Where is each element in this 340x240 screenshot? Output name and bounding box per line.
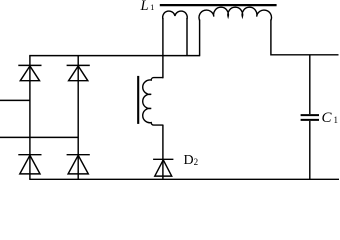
wire bridge left leg: [29, 56, 31, 180]
wire winding B left lead down to rail end: [199, 20, 201, 56]
transformer core bar vertical: [137, 76, 139, 124]
inductor L1 core bar: [160, 4, 277, 6]
wire winding A left lead down to transformer winding: [162, 18, 164, 78]
wire AC input line 1: [0, 99, 30, 101]
inductor L1 winding A (2 humps): [163, 11, 188, 19]
label C1: [322, 110, 339, 127]
diode bridge lower-right: [67, 155, 90, 174]
diode bridge upper-left: [18, 65, 41, 80]
capacitor C1 plates: [301, 115, 319, 120]
diode D2: [153, 159, 173, 176]
diode bridge lower-left: [18, 155, 41, 174]
label D2: [184, 153, 199, 169]
diode bridge upper-right: [67, 65, 90, 80]
wire from winding bottom down to diode D2: [162, 125, 164, 180]
inductor L1 winding B (5 humps): [199, 7, 271, 20]
wire top positive rail: [29, 55, 200, 57]
label L1: [141, 0, 155, 15]
wire bottom return rail: [29, 178, 339, 180]
wire winding B right lead and output rail: [271, 20, 339, 55]
wire winding A right lead down to rail: [186, 18, 188, 56]
wire bridge right leg: [77, 56, 79, 180]
wire capacitor C1 top lead: [309, 55, 311, 114]
wire capacitor C1 bottom lead: [309, 121, 311, 179]
inductor winding vertical (3 humps): [143, 78, 163, 126]
wire AC input line 2: [0, 136, 78, 138]
